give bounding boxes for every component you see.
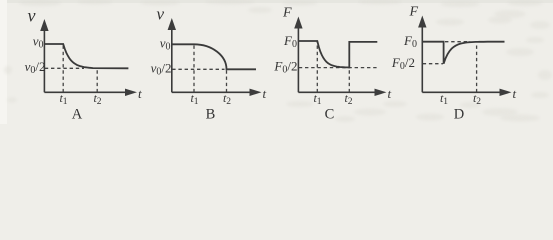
panel B dashed vertical at t1 [193,44,195,92]
panel D y-axis [421,24,423,92]
panel A y-axis [43,27,45,92]
panel C y-axis arrowhead [294,17,302,29]
panel D dashed vertical at t2 [476,44,478,93]
svg-text:F: F [282,6,292,21]
scan noise right area [248,7,552,116]
scan noise bottom area [4,17,549,123]
panel C dashed vertical at t2 below jump [348,68,350,93]
panel A y-axis arrowhead [40,19,48,31]
panel B t-axis [172,91,251,93]
panel B dashed horizontal at v0/2 [172,68,224,70]
panel B y-axis arrowhead [168,18,176,30]
svg-text:v: v [28,6,36,26]
svg-text:t: t [513,86,517,101]
panel A dashed horizontal at v0/2 [45,67,84,69]
svg-text:C: C [325,107,335,123]
svg-text:v0/2: v0/2 [151,61,172,78]
panel B dashed vertical at t2 [226,69,228,92]
panel C y-axis [297,25,299,92]
svg-text:t: t [263,86,267,101]
panel A dashed vertical at t2 [96,68,98,92]
panel C curve with jump [298,41,377,68]
panel C dashed vertical at t1 [316,41,318,92]
panel B t-axis arrowhead [250,89,262,96]
panel D t-axis arrowhead [500,89,512,96]
paper background [0,0,553,124]
svg-text:t: t [388,86,392,101]
svg-text:A: A [72,107,83,123]
svg-text:D: D [454,107,464,123]
svg-text:B: B [206,107,216,123]
svg-text:F: F [409,5,419,20]
panel D y-axis arrowhead [418,16,426,28]
panel C t-axis arrowhead [375,89,387,96]
scan noise top band [7,0,553,3]
panel D t-axis [422,91,501,93]
panel A t-axis [44,91,127,93]
panel A t-axis arrowhead [125,89,137,96]
panel D dashed horizontal at F0 under curve [445,41,470,43]
panel A dashed vertical at t1 [62,44,64,92]
panel A curve [44,44,128,68]
panel D dashed horizontal at F0/2 [423,63,443,65]
svg-text:v0/2: v0/2 [25,59,46,76]
svg-text:v: v [157,5,165,24]
left light strip [0,0,7,124]
panel C dashed horizontal at F0/2 [299,67,377,69]
panel B y-axis [171,26,173,92]
svg-text:t: t [138,86,142,101]
panel D curve with drop [422,42,504,64]
panel B curve [172,44,256,69]
panel C t-axis [298,91,376,93]
